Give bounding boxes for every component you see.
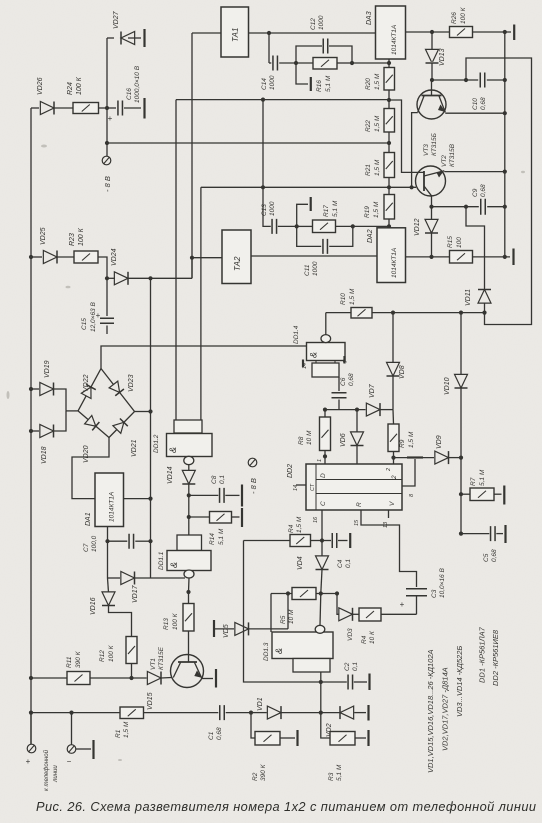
node junction C16 xyxy=(105,106,109,110)
node junction R16 right xyxy=(350,61,354,65)
wire to R26 xyxy=(432,31,450,33)
resistor R8 xyxy=(320,417,331,451)
svg-text:2: 2 xyxy=(386,468,392,472)
svg-text:15: 15 xyxy=(354,519,360,526)
svg-text:С3: С3 xyxy=(431,589,438,598)
svg-text:D: D xyxy=(320,473,327,478)
wire corner to TA2 line xyxy=(191,258,193,279)
diode VD13 xyxy=(426,49,439,63)
terminal circle -8V xyxy=(102,156,111,165)
wire C13 branch xyxy=(263,187,271,226)
wire to DA2 top xyxy=(353,225,389,227)
svg-text:DD1.1: DD1.1 xyxy=(158,551,165,570)
wire bridge bottom to DA1 xyxy=(72,438,109,499)
resistor R7 xyxy=(470,488,494,501)
diode VD11 xyxy=(478,290,491,304)
counter DD2 xyxy=(306,464,402,510)
svg-text:VT2: VT2 xyxy=(441,155,448,167)
wire DD2 pin14 xyxy=(296,484,306,486)
svg-text:R13: R13 xyxy=(163,618,170,630)
wire R10 line xyxy=(326,312,351,314)
svg-text:С12: С12 xyxy=(310,18,317,30)
wire VD26 line xyxy=(31,107,39,109)
wire C15 stub xyxy=(106,278,108,316)
svg-text:1000,0×10 В: 1000,0×10 В xyxy=(134,65,141,103)
resistor R3 xyxy=(330,732,355,746)
svg-text:VD21: VD21 xyxy=(131,439,138,457)
wire VD19 line xyxy=(31,388,39,390)
diode VD4 xyxy=(316,556,329,570)
svg-text:R8: R8 xyxy=(298,436,305,445)
node junction R3 DD13 xyxy=(319,711,323,715)
terminal bar VD2 xyxy=(367,705,369,721)
svg-text:R1: R1 xyxy=(115,729,122,738)
node junction VD3 branch xyxy=(335,591,339,595)
capacitor C11 xyxy=(323,239,328,254)
wire to bridge left corner xyxy=(66,410,78,412)
wire VD1 line xyxy=(251,712,267,714)
svg-text:+: + xyxy=(400,600,405,609)
svg-text:VD19: VD19 xyxy=(44,360,51,378)
svg-text:линии: линии xyxy=(53,765,59,783)
svg-text:0,1: 0,1 xyxy=(352,662,359,671)
svg-text:16: 16 xyxy=(313,516,319,523)
svg-text:1,5 М: 1,5 М xyxy=(296,516,303,533)
svg-text:+: + xyxy=(108,114,113,123)
wire terminal2 up xyxy=(71,713,73,745)
resistor R17 xyxy=(313,220,336,233)
capacitor C15 xyxy=(100,318,114,323)
wire branch down to y63 xyxy=(268,33,270,63)
diode VD1 xyxy=(267,706,281,719)
svg-text:VD5: VD5 xyxy=(223,624,230,638)
wire VD12 leads xyxy=(431,207,433,220)
terminal bar R26 xyxy=(513,25,515,41)
wire y63 line left xyxy=(269,62,271,64)
svg-text:10 М: 10 М xyxy=(306,430,313,445)
wire VD5 up xyxy=(287,594,289,629)
svg-text:Рис. 26. Схема разветвителя но: Рис. 26. Схема разветвителя номера 1х2 с… xyxy=(36,799,536,814)
svg-text:1,5 М: 1,5 М xyxy=(374,115,381,132)
svg-text:390 К: 390 К xyxy=(75,650,82,668)
diode VD18 xyxy=(40,425,54,438)
resistor R24 xyxy=(73,103,99,114)
svg-text:1014КТ1А: 1014КТ1А xyxy=(391,25,398,55)
node junction R8 top xyxy=(323,408,327,412)
svg-text:R21: R21 xyxy=(365,164,372,176)
wire VD24 line xyxy=(107,277,115,279)
svg-text:R: R xyxy=(356,502,363,507)
diode VD20 bridge bottom-left xyxy=(74,407,112,442)
node junction R17 right xyxy=(351,224,355,228)
node junction x150 bridge xyxy=(148,409,152,413)
wire R13 leads xyxy=(188,592,190,604)
resistor R4 timing xyxy=(359,608,381,621)
wire R19 leads xyxy=(388,187,390,194)
wire y99 line xyxy=(176,99,389,101)
terminal bar C2 xyxy=(368,674,370,691)
node junction DA3 pin R20 xyxy=(387,61,391,65)
wire C2 line xyxy=(321,681,347,683)
resistor R13 xyxy=(183,604,194,632)
resistor R19 xyxy=(384,195,395,220)
svg-text:R15: R15 xyxy=(447,236,454,248)
node junction rail VD25 xyxy=(29,255,33,259)
node junction C7 left xyxy=(105,539,109,543)
diode VD15 xyxy=(147,672,161,685)
wire R15 line xyxy=(406,256,450,258)
terminal bar R17 tap xyxy=(310,197,312,211)
logic gate DD1.1 xyxy=(177,535,202,551)
op-amp DA1 xyxy=(95,473,124,527)
svg-text:VD23: VD23 xyxy=(128,374,135,392)
wire TA1 left lead xyxy=(192,32,221,34)
diode VD7 xyxy=(366,403,380,416)
svg-text:C: C xyxy=(320,501,327,506)
svg-text:VD18: VD18 xyxy=(41,446,48,464)
op-amp DA3 xyxy=(376,6,406,59)
svg-text:DD2: DD2 xyxy=(287,464,294,478)
wire R5 line xyxy=(270,594,272,633)
svg-text:R19: R19 xyxy=(364,206,371,218)
wire VD25 line xyxy=(31,256,42,258)
terminal tick DD1.4 pin7 xyxy=(343,356,345,364)
terminal bar R3 xyxy=(367,730,369,746)
terminal circle minus xyxy=(67,745,76,754)
wire DA1 bottom pin xyxy=(107,527,109,542)
svg-text:VD3: VD3 xyxy=(347,628,354,641)
svg-text:R10: R10 xyxy=(340,293,347,305)
op-amp DA2 xyxy=(377,228,406,283)
wire C16 stub xyxy=(107,107,116,109)
svg-text:390 К: 390 К xyxy=(260,763,267,781)
wire y409 line xyxy=(325,409,366,411)
diode VD17 xyxy=(121,572,135,585)
wire R12 bottom xyxy=(131,664,133,679)
diode VD6 xyxy=(351,432,364,446)
terminal bar C8 xyxy=(241,485,243,507)
wire R11 line xyxy=(31,677,67,679)
svg-text:DA2: DA2 xyxy=(367,229,374,243)
wire VD16 leads xyxy=(108,578,109,593)
svg-text:0,68: 0,68 xyxy=(480,97,487,110)
wire DA1 column down xyxy=(107,541,109,578)
svg-text:КТ315Е: КТ315Е xyxy=(158,646,165,670)
wire VD17 line xyxy=(108,577,121,579)
resistor R11 xyxy=(67,672,90,685)
svg-text:DA1: DA1 xyxy=(85,512,92,526)
svg-text:1014КТ1А: 1014КТ1А xyxy=(109,492,116,522)
svg-text:VD15: VD15 xyxy=(147,692,154,710)
svg-text:10,0×16 В: 10,0×16 В xyxy=(439,568,446,598)
terminal bar R16 tap xyxy=(310,77,312,91)
wire VD14 to node xyxy=(188,484,190,495)
node junction R10 VD10 xyxy=(459,311,463,315)
logic gate DD1.2 xyxy=(174,420,202,433)
svg-text:0,68: 0,68 xyxy=(491,549,498,562)
wire VT2 collector xyxy=(444,171,505,173)
terminal bar C16 xyxy=(143,98,145,119)
svg-text:VD24: VD24 xyxy=(111,248,118,266)
wire VT3 collector xyxy=(412,113,418,188)
svg-text:V: V xyxy=(389,501,396,506)
svg-text:1000: 1000 xyxy=(312,261,319,276)
capacitor C9 xyxy=(481,199,486,215)
diode VD23 bridge top-right xyxy=(97,365,139,415)
node junction C10 right xyxy=(503,78,507,82)
svg-text:5,1 М: 5,1 М xyxy=(325,75,332,92)
svg-text:к телефонной: к телефонной xyxy=(43,749,50,791)
svg-text:1,5 М: 1,5 М xyxy=(408,431,415,448)
svg-text:VT3: VT3 xyxy=(423,144,430,156)
wire VD8 leads xyxy=(392,313,394,363)
node junction C5 left xyxy=(459,532,463,536)
wire DD1.2 output xyxy=(188,465,190,471)
wire R16 leads xyxy=(296,62,313,64)
svg-text:DD1.3: DD1.3 xyxy=(263,642,270,661)
wire C11 bypass loop xyxy=(297,226,322,246)
svg-text:- 8 В: - 8 В xyxy=(103,176,112,192)
svg-text:С9: С9 xyxy=(472,188,479,197)
wire VD3 branch xyxy=(337,594,339,615)
svg-text:СТ: СТ xyxy=(310,483,316,491)
capacitor C12 xyxy=(323,39,328,54)
wire VD4 bottom xyxy=(321,570,322,594)
svg-text:R3: R3 xyxy=(328,772,335,781)
wire R16 tap xyxy=(296,63,308,84)
svg-text:R4: R4 xyxy=(288,524,295,533)
node junction VD13 top xyxy=(430,30,434,34)
svg-text:VD2,VD17,VD27 -Д814А: VD2,VD17,VD27 -Д814А xyxy=(441,667,450,751)
svg-text:С16: С16 xyxy=(126,88,133,100)
wire R20 leads xyxy=(388,63,390,68)
svg-text:−: − xyxy=(67,757,72,766)
node junction R16 left xyxy=(294,61,298,65)
wire C9 line xyxy=(432,206,479,208)
node junction VD9 right xyxy=(459,456,463,460)
svg-text:VD12: VD12 xyxy=(414,218,421,236)
wire node to -8V line xyxy=(106,108,108,143)
svg-text:R9: R9 xyxy=(399,439,406,448)
node junction y187 x411 xyxy=(410,185,414,189)
wire VD5 line xyxy=(214,628,234,630)
svg-text:1000: 1000 xyxy=(318,15,325,30)
capacitor C7 xyxy=(129,534,134,549)
node junction R7 left xyxy=(459,492,463,496)
wire vertical x263 xyxy=(262,100,264,188)
wire C12 bypass loop xyxy=(296,46,322,63)
wire VT3 emitter xyxy=(445,112,505,114)
svg-text:VD13: VD13 xyxy=(439,48,446,66)
wire right vertical x504 xyxy=(504,32,506,257)
svg-text:С1: С1 xyxy=(208,731,215,740)
svg-text:VD4: VD4 xyxy=(297,556,304,570)
svg-text:5,1 М: 5,1 М xyxy=(336,764,343,781)
resistor R22 xyxy=(384,109,395,133)
svg-text:С6: С6 xyxy=(340,377,347,386)
svg-text:0,68: 0,68 xyxy=(348,373,355,386)
node junction R22 R21 xyxy=(387,141,391,145)
node junction R10 VD8 xyxy=(391,311,395,315)
diode VD26 xyxy=(40,102,54,115)
svg-text:VD16: VD16 xyxy=(90,597,97,615)
node junction DD1.3 out top xyxy=(319,591,323,595)
svg-text:VD8: VD8 xyxy=(399,365,406,379)
svg-text:С10: С10 xyxy=(472,98,479,110)
node junction C9 mid xyxy=(464,205,468,209)
node junction R13 top xyxy=(186,590,190,594)
svg-text:1,5 М: 1,5 М xyxy=(374,159,381,176)
svg-text:10 К: 10 К xyxy=(369,630,376,644)
wire R14 line xyxy=(189,516,210,518)
node junction C10 mid xyxy=(464,78,468,82)
resistor R2 xyxy=(255,732,280,746)
node junction R8 bottom xyxy=(323,454,327,458)
svg-text:R17: R17 xyxy=(323,205,330,217)
diode VD19 xyxy=(40,383,54,396)
capacitor C4 xyxy=(332,533,337,548)
resistor R1 xyxy=(120,707,144,719)
wire -8V stub xyxy=(106,143,108,156)
logic gate DD1.4 xyxy=(307,343,346,361)
node junction pin16 C4 xyxy=(320,538,324,542)
node junction left rail R11 xyxy=(29,676,33,680)
svg-text:R20: R20 xyxy=(365,78,372,90)
svg-text:VD1,VD15,VD16,VD18...26 -КД102: VD1,VD15,VD16,VD18...26 -КД102А xyxy=(426,649,435,773)
svg-text:&: & xyxy=(168,447,178,453)
wire long vertical x200 xyxy=(200,187,202,420)
diode VD12 xyxy=(425,219,438,233)
svg-text:VD9: VD9 xyxy=(436,435,443,449)
wire VT1 emitter xyxy=(202,678,213,680)
capacitor C3 xyxy=(406,589,427,596)
svg-text:5,1 М: 5,1 М xyxy=(218,528,225,545)
wire R9 leads xyxy=(392,410,395,424)
svg-text:R26: R26 xyxy=(451,12,458,24)
terminal bar VT1 emitter xyxy=(215,669,217,688)
svg-text:R16: R16 xyxy=(316,80,323,92)
svg-text:100 К: 100 К xyxy=(172,612,179,630)
wire R7 line xyxy=(461,493,470,495)
wire VD11 top lead xyxy=(466,207,485,290)
resistor R12 xyxy=(126,637,137,664)
svg-text:100,0: 100,0 xyxy=(91,535,98,552)
svg-text:С4: С4 xyxy=(337,559,344,568)
node junction VD11 R10 line xyxy=(482,311,486,315)
wire VD9 line xyxy=(394,457,435,459)
wire y187 line xyxy=(201,186,416,188)
node junction left rail VD19 xyxy=(29,387,33,391)
wire TA2 right lead xyxy=(251,255,377,257)
svg-text:С11: С11 xyxy=(304,264,311,276)
transformer TA2 xyxy=(222,230,251,284)
svg-text:VT1: VT1 xyxy=(150,658,157,670)
resistor R20 xyxy=(384,68,395,91)
diode VD8 xyxy=(387,362,400,376)
terminal bar C5 xyxy=(504,525,506,543)
wire DD2 pin15 xyxy=(361,510,417,587)
wire C10 line xyxy=(432,79,478,81)
wire C3 bottom lead xyxy=(416,596,418,614)
svg-text:- 8 В: - 8 В xyxy=(249,478,258,494)
node junction y99 x263 xyxy=(261,98,265,102)
wire rail to terminal xyxy=(30,713,32,744)
node junction R2 xyxy=(249,711,253,715)
resistor R4a xyxy=(290,535,311,547)
wire VD6 leads xyxy=(356,410,358,432)
svg-text:С8: С8 xyxy=(211,475,218,484)
wire TA1 right lead xyxy=(249,32,376,34)
node junction C2 xyxy=(319,680,323,684)
diode VD5 xyxy=(235,622,249,635)
svg-text:1014КТ1А: 1014КТ1А xyxy=(391,248,398,278)
wire C8 line xyxy=(189,494,219,496)
transistor VT1 xyxy=(171,655,204,688)
wire VD18 line xyxy=(31,430,39,432)
wire R3 branch xyxy=(321,713,330,738)
svg-text:С7: С7 xyxy=(83,543,90,552)
svg-text:100 К: 100 К xyxy=(78,227,85,246)
wire R17 tap xyxy=(297,204,308,226)
svg-text:ТА1: ТА1 xyxy=(231,28,240,42)
wire long vertical x150 xyxy=(150,278,152,578)
svg-text:VD22: VD22 xyxy=(83,374,90,392)
svg-text:100 К: 100 К xyxy=(460,6,467,24)
wire C7 line xyxy=(108,540,128,542)
capacitor C1 xyxy=(220,705,225,720)
capacitor C10 xyxy=(480,73,485,88)
node junction terminal2 xyxy=(69,711,73,715)
wire VD2 line xyxy=(321,712,340,714)
svg-text:VD1: VD1 xyxy=(257,697,264,711)
svg-text:1: 1 xyxy=(317,459,323,462)
wire bridge right to x150 xyxy=(135,411,151,413)
wire DA3 out xyxy=(406,31,433,33)
svg-text:100: 100 xyxy=(456,237,463,248)
logic gate DD1.3 xyxy=(272,632,333,659)
diode VD24 xyxy=(114,272,128,285)
svg-text:R5: R5 xyxy=(280,615,287,624)
node junction R26 x504 xyxy=(503,30,507,34)
transistor VT3 xyxy=(417,90,446,119)
svg-text:R4: R4 xyxy=(361,635,368,644)
capacitor C8 xyxy=(220,488,225,503)
diode VD27 xyxy=(121,32,135,45)
wire TA2 left lead xyxy=(192,257,222,259)
wire VD10 leads xyxy=(460,313,462,375)
svg-text:R11: R11 xyxy=(66,656,73,668)
wire bridge top to gate input line xyxy=(101,346,307,369)
resistor R14 xyxy=(210,512,232,524)
svg-text:+: + xyxy=(26,757,31,766)
svg-text:&: & xyxy=(169,562,179,568)
svg-text:100 К: 100 К xyxy=(108,644,115,662)
svg-text:С2: С2 xyxy=(344,662,351,671)
wire R14 node to DD1.1 xyxy=(188,517,190,535)
resistor R15 xyxy=(450,251,473,264)
node junction x150 C7 xyxy=(148,539,152,543)
svg-text:1,5 М: 1,5 М xyxy=(123,721,130,738)
svg-text:1,5 М: 1,5 М xyxy=(374,73,381,90)
svg-text:100 К: 100 К xyxy=(76,76,83,95)
svg-text:КТ315В: КТ315В xyxy=(449,143,456,167)
capacitor C6 xyxy=(332,393,347,398)
transformer TA1 xyxy=(221,7,249,57)
svg-text:12,0×63 В: 12,0×63 В xyxy=(90,302,97,332)
svg-text:0,68: 0,68 xyxy=(216,727,223,740)
node junction VT2 emitter xyxy=(429,205,433,209)
wire DA1 right pin xyxy=(124,498,151,500)
